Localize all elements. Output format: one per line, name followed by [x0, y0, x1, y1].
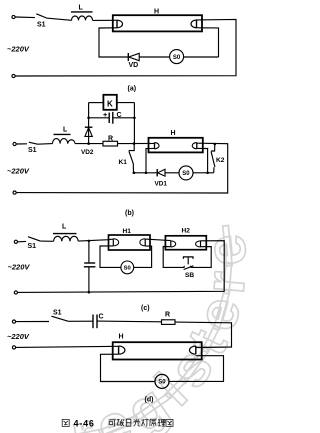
svg-text:K: K — [107, 100, 113, 109]
svg-text:~220V: ~220V — [7, 167, 30, 176]
svg-text:H: H — [119, 334, 124, 341]
svg-text:K1: K1 — [119, 159, 128, 166]
svg-text:C: C — [117, 112, 122, 119]
svg-text:~220V: ~220V — [8, 263, 31, 272]
svg-text:(d): (d) — [145, 397, 154, 404]
svg-text:S0: S0 — [158, 380, 166, 386]
svg-text:H2: H2 — [182, 228, 191, 235]
svg-text:(a): (a) — [128, 86, 137, 93]
svg-text:VD: VD — [129, 62, 139, 69]
svg-text:(b): (b) — [125, 210, 134, 217]
svg-text:H1: H1 — [123, 228, 132, 235]
svg-text:VD1: VD1 — [155, 181, 168, 188]
svg-text:SB: SB — [185, 272, 194, 279]
svg-text:L: L — [62, 224, 67, 231]
svg-text:4-46: 4-46 — [74, 418, 95, 428]
svg-text:L: L — [79, 5, 84, 12]
svg-text:H: H — [154, 9, 159, 16]
svg-text:S0: S0 — [182, 171, 190, 177]
svg-text:L: L — [63, 127, 68, 134]
svg-text:S1: S1 — [37, 22, 46, 29]
svg-text:S1: S1 — [53, 310, 62, 317]
svg-text:S0: S0 — [173, 55, 181, 61]
svg-text:VD2: VD2 — [81, 149, 94, 156]
svg-text:H: H — [171, 130, 176, 137]
svg-text:(c): (c) — [141, 305, 150, 312]
svg-text:S1: S1 — [28, 243, 37, 250]
svg-text:S1: S1 — [28, 147, 37, 154]
svg-text:~220V: ~220V — [7, 45, 30, 54]
svg-text:R: R — [165, 312, 170, 319]
svg-text:C: C — [99, 314, 104, 321]
svg-text:S0: S0 — [124, 266, 131, 272]
svg-text:K2: K2 — [216, 157, 225, 164]
svg-text:R: R — [108, 136, 113, 143]
svg-text:~220V: ~220V — [7, 332, 30, 341]
